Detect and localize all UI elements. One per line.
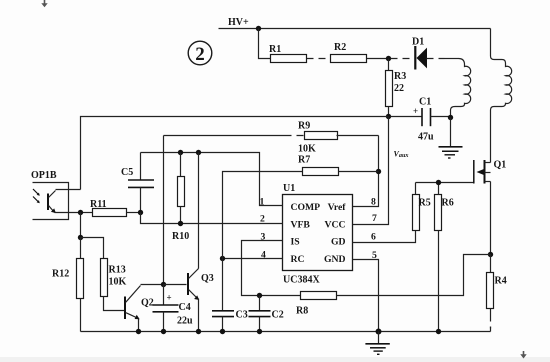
- node: Q1 source / R4 junction dot: [488, 252, 493, 257]
- transformer aux winding: [451, 59, 471, 118]
- svg-text:47u: 47u: [418, 132, 434, 143]
- node: opto emitter junction dot: [78, 210, 83, 215]
- svg-text:10K: 10K: [298, 144, 316, 155]
- capacitor C3: [212, 310, 248, 332]
- svg-text:VCC: VCC: [325, 220, 346, 231]
- resistor R9: [164, 121, 379, 155]
- svg-text:R6: R6: [442, 198, 454, 209]
- wire: pin 1 COMP line: [141, 153, 283, 206]
- svg-text:GD: GD: [331, 237, 346, 248]
- svg-text:6: 6: [371, 232, 376, 243]
- node B junction dot (R3 bottom / Vaux): [386, 114, 391, 119]
- svg-text:R3: R3: [394, 71, 406, 82]
- svg-text:HV+: HV+: [228, 17, 249, 28]
- capacitor C1: [391, 97, 451, 143]
- svg-text:GND: GND: [324, 254, 346, 265]
- node: Q3 collector top junction dot: [196, 150, 201, 155]
- wire: R1 to R2 (dashed): [307, 58, 331, 60]
- svg-text:R1: R1: [269, 44, 281, 55]
- resistor R3: [386, 59, 407, 117]
- svg-text:R13: R13: [109, 265, 126, 276]
- capacitor C2: [249, 296, 284, 332]
- svg-text:+: +: [413, 106, 418, 116]
- node: R10 top junction dot: [178, 150, 183, 155]
- wire: Q3 collector up to COMP line: [198, 153, 200, 269]
- svg-text:R9: R9: [298, 121, 310, 132]
- svg-text:Vref: Vref: [328, 202, 347, 213]
- wire: opto emitter to R11: [55, 212, 81, 214]
- wire: R9 left vertical down to Q3 base node: [163, 136, 165, 285]
- ground (aux/C1): [439, 118, 463, 159]
- svg-text:D1: D1: [412, 37, 424, 48]
- wire: Q3 base lead: [164, 284, 187, 286]
- resistor R11: [81, 199, 141, 217]
- capacitor C5: [121, 153, 154, 213]
- svg-text:C3: C3: [236, 310, 248, 321]
- svg-text:22: 22: [394, 83, 404, 94]
- node: C4 rail dot: [161, 329, 166, 334]
- svg-text:10K: 10K: [109, 277, 127, 288]
- svg-text:COMP: COMP: [291, 202, 321, 213]
- svg-text:C1: C1: [419, 97, 431, 108]
- svg-text:R11: R11: [90, 199, 107, 210]
- diode D1: [412, 37, 427, 70]
- svg-text:7: 7: [372, 213, 377, 224]
- wire: pin 5 GND to ground: [353, 260, 379, 332]
- wire: pin 2 VFB line: [141, 213, 283, 224]
- transistor Q1 (MOSFET): [474, 160, 506, 184]
- svg-text:R12: R12: [52, 269, 69, 280]
- svg-text:R2: R2: [334, 42, 346, 53]
- node: R6 top junction dot: [436, 180, 441, 185]
- svg-text:IS: IS: [291, 237, 300, 248]
- svg-text:C2: C2: [272, 310, 284, 321]
- resistor R2: [331, 42, 367, 63]
- wire: HV+ top rail: [219, 28, 491, 30]
- op-amp U1 box (UC384X PWM controller): [283, 183, 353, 286]
- wire: opto collector to Vaux: [56, 189, 81, 191]
- svg-text:Q3: Q3: [201, 273, 214, 284]
- svg-text:2: 2: [260, 214, 265, 225]
- resistor R13: [101, 259, 127, 311]
- node: R7/Vref junction dot: [376, 169, 381, 174]
- resistor R5: [413, 183, 431, 231]
- wire: Q2 emitter down to rail: [138, 319, 140, 332]
- ground (main): [365, 332, 389, 355]
- svg-text:R7: R7: [298, 155, 310, 166]
- svg-text:R8: R8: [296, 306, 308, 317]
- capacitor C4: [153, 285, 194, 332]
- resistor R7: [223, 155, 379, 176]
- resistor R1: [269, 44, 307, 63]
- wire: D1 anode to aux winding: [427, 58, 445, 60]
- wire: branch to R13: [81, 238, 104, 259]
- node: R6 rail dot: [436, 329, 441, 334]
- node: Q2 collector / Q3 base / C4 junction dot: [161, 282, 166, 287]
- node: aux winding bottom junction dot: [448, 115, 453, 120]
- resistor R8: [296, 292, 337, 317]
- top-left down arrow: [41, 0, 47, 7]
- optocoupler OP1B: [31, 170, 69, 220]
- svg-text:22u: 22u: [177, 316, 193, 327]
- bottom-right down arrow: [520, 351, 526, 359]
- resistor R12: [52, 238, 84, 332]
- node: HV+ junction dot: [256, 26, 261, 31]
- node: C2 top junction dot: [257, 293, 262, 298]
- svg-text:OP1B: OP1B: [31, 170, 57, 181]
- wire: pin 6 GD to R5: [353, 231, 416, 243]
- resistor R4: [487, 255, 507, 332]
- wire: Q2 collector to Q3 base node: [141, 284, 164, 286]
- transformer primary winding: [491, 29, 512, 163]
- svg-text:2: 2: [195, 44, 205, 65]
- node: ground rail dot: [376, 329, 382, 335]
- svg-text:RC: RC: [291, 254, 305, 265]
- svg-text:Q1: Q1: [494, 160, 507, 171]
- node A junction dot (R2/R3/D1): [386, 56, 391, 61]
- node: C3 rail dot: [220, 329, 225, 334]
- resistor R10: [172, 153, 189, 243]
- node: C2 rail dot: [257, 329, 262, 334]
- wire: R7 vertical down through RC node to C3: [222, 173, 224, 311]
- svg-text:C5: C5: [121, 167, 133, 178]
- svg-text:U1: U1: [283, 183, 295, 194]
- svg-text:R10: R10: [172, 231, 189, 242]
- svg-text:Q2: Q2: [141, 298, 154, 309]
- resistor R6: [435, 183, 454, 332]
- wire: Vref line (pin 8 up to R9/R7): [353, 136, 379, 207]
- wire: R2 to node A: [367, 58, 389, 60]
- wire: node A to D1 cathode (dashed): [391, 58, 413, 60]
- node: R12/R13 junction dot: [78, 235, 83, 240]
- wire: Q3 emitter down to rail: [198, 299, 200, 332]
- node: RC/C3/R7 junction dot: [220, 256, 225, 261]
- node: Q2 emitter rail dot: [136, 329, 141, 334]
- circled 2 marker: [188, 41, 212, 65]
- svg-text:VFB: VFB: [291, 220, 311, 231]
- svg-text:+: +: [167, 293, 172, 303]
- wire: bottom ground rail: [81, 331, 491, 333]
- svg-text:R4: R4: [495, 276, 507, 287]
- svg-text:8: 8: [371, 197, 376, 208]
- transistor Q3: [188, 269, 214, 301]
- svg-text:C4: C4: [179, 302, 191, 313]
- svg-text:R5: R5: [419, 198, 431, 209]
- wire: VCC vertical (node B to pin 7): [353, 117, 389, 225]
- node: R11/C5 junction dot: [138, 210, 143, 215]
- wire: pin 3 IS line to R8: [242, 241, 301, 296]
- wire: sense line R8 to Q1 source: [337, 255, 491, 296]
- wire: drop from HV+ rail to R1: [259, 29, 271, 59]
- wire: Q1 source down to sense node: [490, 182, 492, 255]
- node: R10 bottom junction dot: [178, 221, 183, 226]
- wire: emitter node down to R12/R13: [80, 213, 82, 238]
- transistor Q2: [125, 286, 154, 320]
- wire: pin 4 RC line: [223, 258, 283, 260]
- wire: gate line R5/R6 to Q1 gate: [416, 182, 474, 184]
- node: Q3 emitter rail dot: [196, 329, 201, 334]
- wire: Vaux rail (node B to opto collector drop): [81, 117, 389, 190]
- svg-text:UC384X: UC384X: [283, 275, 320, 286]
